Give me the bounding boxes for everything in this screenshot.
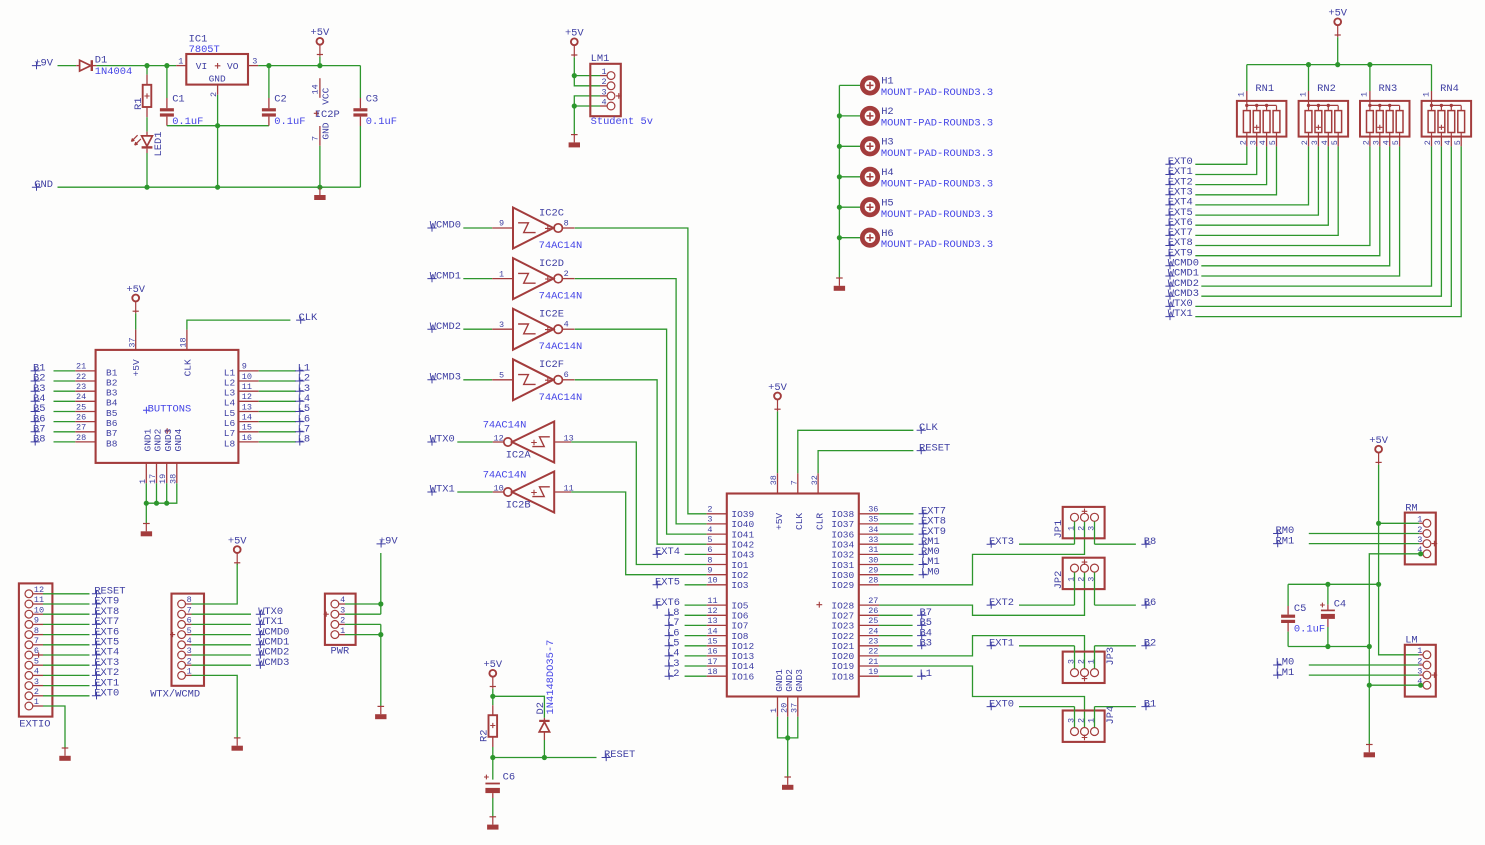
IC pin 29 IO30 [859,574,879,576]
IC pin 1 GND1 [777,697,779,717]
svg-text:1: 1 [1360,92,1370,97]
svg-text:WTX0: WTX0 [430,434,455,446]
IC pin 2 IO39 [707,513,727,515]
svg-text:7: 7 [789,480,799,485]
wire BUTTONS gnd joins [145,483,147,503]
net WCMD1 from RN [1165,272,1174,279]
svg-text:EXT3: EXT3 [989,536,1014,548]
jumper JP1 [1063,507,1105,538]
net EXT8 from RN [1165,242,1174,249]
svg-text:2: 2 [1076,718,1086,723]
svg-text:2: 2 [1238,140,1248,145]
wire IC gnd joins [778,717,788,738]
svg-text:1: 1 [1237,92,1247,97]
net label CLK main [917,427,926,434]
svg-text:24: 24 [868,626,878,636]
net EXT4 from RN [1165,201,1174,208]
svg-text:MOUNT-PAD-ROUND3.3: MOUNT-PAD-ROUND3.3 [881,239,993,251]
IC pin 12 IO6 [707,614,727,616]
svg-text:RESET: RESET [919,442,950,454]
svg-text:5: 5 [1268,140,1278,145]
wire WTX pin8 to +5V [185,603,191,605]
cap bottom rail [1288,646,1369,648]
svg-text:+9V: +9V [34,57,53,69]
svg-text:IO18: IO18 [831,671,854,682]
IC pin 27 IO28 [859,604,879,606]
svg-text:B6: B6 [1144,597,1156,609]
wire PWR pin4 [339,603,345,605]
IC pin 10 IO3 [707,584,727,586]
net WCMD2 from RN [1165,283,1174,290]
IC pin 33 IO34 [859,543,879,545]
wire PWR pin1 [339,634,345,636]
wire +9V to PWR [380,553,382,614]
net label LM0 [1273,661,1282,668]
svg-text:LED1: LED1 [153,132,165,157]
net WTX0 from connector [185,613,191,615]
net label WTX1 [427,488,436,495]
capacitor C6 [492,758,494,780]
wire LM0 [1309,664,1419,666]
wire to gnd symbol [145,503,147,523]
svg-text:13: 13 [242,402,252,412]
svg-text:22: 22 [868,647,878,657]
junction [1367,644,1372,649]
power part IC2P VCC pin [319,78,321,98]
net EXT3 from EXTIO [33,664,43,666]
wire WCMD0 to gate [463,227,492,229]
jumper JP4 [1063,711,1105,742]
svg-text:EXTIO: EXTIO [19,718,50,730]
wire +5V to RM pin1 [1379,522,1420,524]
wire +5V to LM1 pin2 [574,76,600,86]
wire IO29 to JP1 pin2 [879,521,1084,584]
svg-text:C4: C4 [1334,598,1346,610]
net WTX0 from RN [1165,303,1174,310]
wire RM1 [1309,543,1419,545]
IC pin 17 IO14 [707,665,727,667]
junction [572,73,577,78]
svg-text:1: 1 [1417,646,1422,656]
wire WTX pin1 to gnd [185,674,191,676]
svg-text:2: 2 [1076,577,1086,582]
net label B1 [1095,706,1136,708]
svg-text:IC2E: IC2E [539,309,564,321]
net WCMD1 from connector [185,644,191,646]
svg-text:0.1uF: 0.1uF [1294,623,1325,635]
capacitor C3 [359,66,361,98]
wire PWR pin3 [339,613,345,615]
svg-text:23: 23 [868,637,878,647]
svg-text:22: 22 [76,372,86,382]
svg-text:IO16: IO16 [731,671,754,682]
wire LED1 to GND bus [146,153,148,187]
svg-text:RN1: RN1 [1255,83,1274,95]
net EXT8 from EXTIO [33,613,43,615]
svg-text:L8: L8 [298,434,310,446]
net EXT1 from EXTIO [33,685,43,687]
wire RESET to label [818,451,913,474]
resistor R1 [146,66,148,75]
svg-text:MOUNT-PAD-ROUND3.3: MOUNT-PAD-ROUND3.3 [881,87,993,99]
svg-text:MOUNT-PAD-ROUND3.3: MOUNT-PAD-ROUND3.3 [881,178,993,190]
svg-text:BUTTONS: BUTTONS [148,403,192,415]
power part IC2P GND pin [319,126,321,146]
IC pin 35 IO37 [859,523,879,525]
ground symbol right section [1366,744,1373,746]
wire WCMD3 to gate [463,379,492,381]
capacitor C2 [268,66,270,98]
GND bus wire [58,186,361,188]
mount pad H6 [839,237,861,239]
svg-text:IC2B: IC2B [506,500,531,512]
net B1 to BUTTONS [31,367,40,374]
mount pad H1 [839,84,861,86]
net label EXT5 at IC [653,581,662,588]
svg-text:H6: H6 [881,228,893,240]
svg-text:16: 16 [707,647,717,657]
svg-text:38: 38 [769,475,779,485]
svg-text:WCMD0: WCMD0 [430,220,461,232]
IC pin 23 IO21 [859,645,879,647]
inverter IC2E [492,328,513,330]
svg-text:5: 5 [499,371,504,381]
wire IC2F out to IO42 [575,380,707,544]
junction [1418,683,1423,688]
svg-text:3: 3 [707,515,712,525]
svg-text:C1: C1 [172,94,184,106]
svg-text:2: 2 [601,77,606,87]
net EXT2 from EXTIO [33,674,43,676]
svg-text:L8: L8 [224,438,236,449]
svg-text:3: 3 [1433,140,1443,145]
net EXT1 from RN [1165,171,1174,178]
svg-text:H1: H1 [881,76,893,88]
IC pin 4 IO41 [707,533,727,535]
svg-text:28: 28 [76,433,86,443]
svg-text:1: 1 [1421,92,1431,97]
svg-text:GND3: GND3 [794,669,805,692]
wire IC2A out to IO1 [571,442,706,565]
wire IO28 to JP2 pin2 [879,572,1084,615]
svg-text:EXT5: EXT5 [655,577,680,589]
svg-text:1: 1 [1298,92,1308,97]
wire LM1 [1309,674,1419,676]
svg-text:IO29: IO29 [831,580,854,591]
svg-text:1: 1 [601,67,606,77]
svg-text:21: 21 [868,657,878,667]
svg-text:15: 15 [707,637,717,647]
net label EXT8 at IC right [879,523,913,525]
IC pin 7 CLK [797,473,799,493]
svg-text:5: 5 [707,535,712,545]
svg-text:34: 34 [868,525,878,535]
net label CLK [296,317,305,324]
wire IC1 GND pin down [217,95,219,126]
connector WTX/WCMD [172,594,205,686]
svg-text:30: 30 [868,555,878,565]
svg-text:+9V: +9V [379,536,398,548]
net RESET from EXTIO [33,593,43,595]
svg-text:6: 6 [707,545,712,555]
net EXT6 from EXTIO [33,634,43,636]
IC pin 36 IO38 [859,513,879,515]
inverter IC2C [492,227,513,229]
svg-text:19: 19 [868,667,878,677]
IC pin 37 GND3 [797,697,799,717]
net label EXT7 at IC right [879,513,913,515]
IC pin 24 IO22 [859,635,879,637]
svg-text:JP2: JP2 [1053,571,1065,590]
wire +5V down right section [1378,523,1380,584]
wire PWR gnd down [380,624,382,706]
net label EXT1 [987,642,996,649]
wire EXTIO pin1 to gnd [33,705,43,707]
wire LM1 pin3 to gnd [574,96,600,106]
svg-text:0.1uF: 0.1uF [366,116,397,128]
svg-text:31: 31 [868,545,878,555]
svg-text:C6: C6 [503,771,515,783]
wire +5V to D2 [493,696,545,718]
junction [1367,62,1372,67]
wire JP3 pin1 [1094,646,1096,669]
IC pin 28 IO29 [859,584,879,586]
IC pin 6 IO43 [707,553,727,555]
svg-text:8: 8 [564,218,569,228]
svg-text:27: 27 [76,423,86,433]
wire IC2D out to IO40 [575,279,707,524]
svg-text:R1: R1 [133,98,145,110]
svg-text:26: 26 [76,412,86,422]
wire WTX0 to gate [457,441,492,443]
svg-text:CLK: CLK [794,513,805,530]
net label B3 at IC right [879,645,913,647]
svg-text:L2: L2 [667,668,679,680]
IC pin 31 IO32 [859,553,879,555]
junction [1325,644,1330,649]
net label L2 at IC [665,673,674,680]
net WCMD0 from RN [1165,262,1174,269]
net label L1 at IC right [879,675,913,677]
svg-text:15: 15 [242,423,252,433]
svg-text:IC2D: IC2D [539,258,564,270]
svg-text:2: 2 [564,269,569,279]
svg-text:4: 4 [707,525,712,535]
svg-text:B8: B8 [1144,536,1156,548]
wire IC2C out to IO39 [575,228,707,514]
net label RM1 at IC right [879,543,913,545]
svg-text:CLK: CLK [182,359,193,376]
junction [572,103,577,108]
svg-text:B8: B8 [106,438,118,449]
svg-text:PWR: PWR [331,646,350,658]
junction [164,501,169,506]
wire JP4 pin1 [1094,707,1096,728]
svg-text:2: 2 [1300,140,1310,145]
wire WCMD1 to gate [463,278,492,280]
IC pin 9 IO2 [707,574,727,576]
wire CLK to label [798,430,914,473]
svg-text:9: 9 [242,362,247,372]
svg-text:74AC14N: 74AC14N [539,341,583,353]
IC pin 34 IO36 [859,533,879,535]
IC pin 15 IO12 [707,645,727,647]
net B4 to BUTTONS [31,398,40,405]
svg-text:VCC: VCC [321,87,332,104]
svg-text:4: 4 [1443,140,1453,145]
svg-text:CLK: CLK [299,312,318,324]
IC pin 19 IO18 [859,675,879,677]
svg-text:12: 12 [707,606,717,616]
svg-text:JP3: JP3 [1105,647,1117,666]
junction [542,755,547,760]
net EXT0 from EXTIO [33,695,43,697]
BUTTONS GND4 pin [176,463,178,483]
svg-text:C5: C5 [1294,603,1306,615]
net label WCMD2 [427,326,436,333]
wire RM pin4 to gnd rail [1369,554,1419,647]
wire IC2E out to IO41 [575,329,707,534]
net label RM1 [1273,540,1282,547]
svg-text:2: 2 [1076,526,1086,531]
svg-text:RN4: RN4 [1440,83,1459,95]
net WCMD3 from connector [185,664,191,666]
svg-text:JP1: JP1 [1053,520,1065,539]
svg-text:1: 1 [178,56,183,66]
svg-text:36: 36 [868,505,878,515]
svg-text:D1: D1 [95,55,107,67]
wire +5V to LM1 pin1 [574,75,600,77]
svg-text:WCMD3: WCMD3 [258,657,289,669]
net label RM0 at IC right [879,553,913,555]
junction [1367,683,1372,688]
svg-text:26: 26 [868,606,878,616]
svg-text:MOUNT-PAD-ROUND3.3: MOUNT-PAD-ROUND3.3 [881,148,993,160]
net EXT9 from EXTIO [33,603,43,605]
junction [1376,521,1381,526]
net WTX1 from connector [185,623,191,625]
net label L3 at IC [665,662,674,669]
svg-text:RM1: RM1 [1276,535,1295,547]
svg-text:14: 14 [242,412,252,422]
IC pin 20 GND2 [787,697,789,717]
svg-text:12: 12 [242,392,252,402]
svg-text:11: 11 [242,382,252,392]
svg-text:25: 25 [868,616,878,626]
ground symbol reset circuit [490,816,497,818]
svg-text:14: 14 [311,84,321,94]
junction [785,735,790,740]
svg-text:GND: GND [34,179,53,191]
svg-text:18: 18 [179,337,189,347]
wire RM0 [1309,533,1419,535]
IC pin 18 IO16 [707,675,727,677]
wire PWR pin2 [339,623,345,625]
junction [164,63,169,68]
net WTX1 from RN [1165,313,1174,320]
jumper JP3 [1063,652,1105,683]
svg-text:25: 25 [76,402,86,412]
svg-text:74AC14N: 74AC14N [539,240,583,252]
IC pin 5 IO42 [707,543,727,545]
inverter IC2D [492,278,513,280]
wire +5V rail RN [1247,64,1432,66]
wire to LM1 pin4 [574,105,600,107]
svg-text:10: 10 [707,576,717,586]
wire IO19 to JP4 pin2 [879,666,1084,728]
net label +9V [32,62,41,69]
wire D1 to IC1 [96,65,176,67]
svg-text:19: 19 [158,474,168,484]
svg-text:8: 8 [707,555,712,565]
svg-text:IO3: IO3 [731,580,748,591]
inverter IC2A [493,441,504,443]
mount pad H4 [839,176,861,178]
svg-text:3: 3 [601,87,606,97]
capacitor C4 [1327,584,1329,604]
svg-text:32: 32 [810,475,820,485]
inverter IC2F [492,379,513,381]
IC pin 32 CLR [817,473,819,493]
svg-text:EXT1: EXT1 [989,638,1014,650]
ground symbol BUTTONS [143,523,150,525]
svg-text:LM0: LM0 [921,566,940,578]
svg-text:H4: H4 [881,167,893,179]
svg-text:WTX1: WTX1 [1168,308,1193,320]
IC main block [727,494,859,697]
svg-text:18: 18 [707,667,717,677]
wire JP2 pin3 [1094,572,1096,605]
svg-text:3: 3 [499,320,504,330]
connector PWR [325,594,356,645]
svg-text:H3: H3 [881,137,893,149]
svg-text:2: 2 [1076,659,1086,664]
net B2 to BUTTONS [31,377,40,384]
svg-text:3: 3 [1310,140,1320,145]
svg-text:10: 10 [242,372,252,382]
svg-text:74AC14N: 74AC14N [539,392,583,404]
svg-text:9: 9 [499,219,504,229]
svg-text:WTX/WCMD: WTX/WCMD [150,689,200,701]
svg-text:EXT4: EXT4 [655,546,680,558]
diode D1 [76,65,79,67]
IC pin 21 IO19 [859,665,879,667]
svg-text:6: 6 [564,370,569,380]
net label L5 at IC [665,642,674,649]
block BUTTONS [96,350,239,463]
svg-text:1N4004: 1N4004 [95,66,132,78]
junction [1335,62,1340,67]
wire JP4 pin3 [1074,707,1076,728]
ground symbol LM1 [571,134,578,136]
svg-text:4: 4 [1381,140,1391,145]
svg-text:H5: H5 [881,197,893,209]
net label B8 [1095,543,1136,545]
junction [490,755,495,760]
net label EXT3 [987,541,996,548]
svg-text:L1: L1 [920,668,932,680]
svg-text:GND: GND [209,74,226,85]
svg-text:H2: H2 [881,106,893,118]
wire C1-C2 gnd link [167,125,269,127]
svg-text:2: 2 [707,505,712,515]
ground symbol WTX connector [234,737,241,739]
wire IC1 out to +5V rail [258,65,360,67]
net label L7 at IC [665,622,674,629]
IC pin 30 IO31 [859,564,879,566]
svg-text:LM1: LM1 [1276,667,1295,679]
wire WTX1 to gate [457,491,492,493]
